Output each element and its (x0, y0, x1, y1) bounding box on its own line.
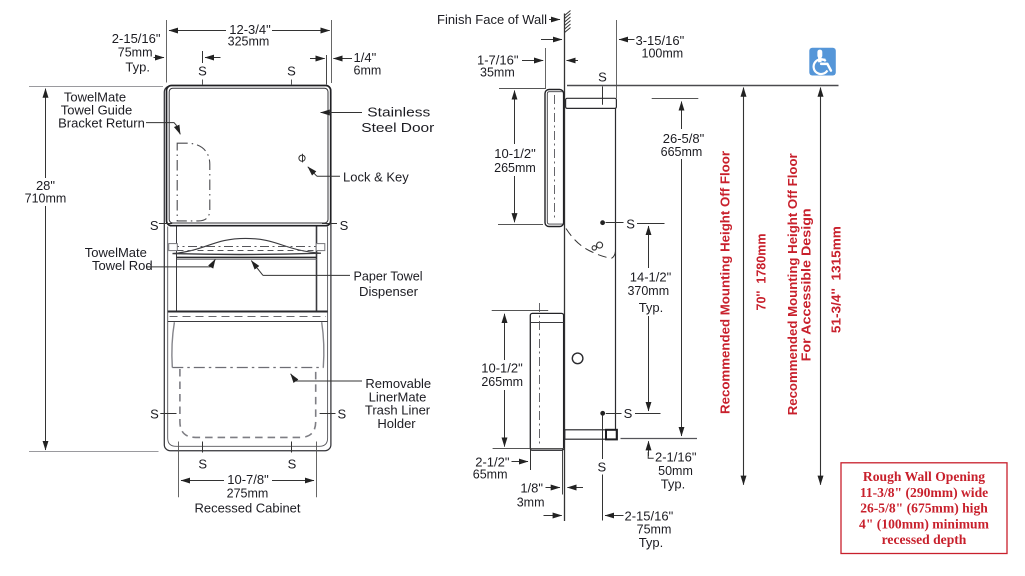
height arrow 70" (743, 88, 745, 485)
knob circle (572, 353, 583, 364)
svg-text:75mm: 75mm (118, 46, 153, 60)
svg-text:Typ.: Typ. (639, 300, 664, 315)
svg-text:4" (100mm) minimum: 4" (100mm) minimum (859, 516, 990, 532)
cabinet outer outline (164, 86, 331, 451)
svg-text:S: S (624, 406, 633, 421)
svg-text:Rough Wall Opening: Rough Wall Opening (863, 469, 985, 484)
svg-text:S: S (287, 64, 296, 79)
top reference line (567, 85, 839, 87)
svg-text:10-1/2": 10-1/2" (494, 146, 536, 161)
weld mark S arrow top (202, 51, 204, 63)
svg-text:3mm: 3mm (517, 496, 545, 510)
svg-text:1/8": 1/8" (520, 481, 543, 496)
svg-text:14-1/2": 14-1/2" (630, 270, 672, 285)
svg-text:100mm: 100mm (642, 47, 684, 61)
bottom flange end cap (606, 430, 617, 440)
svg-text:Typ.: Typ. (125, 60, 150, 75)
svg-text:2-15/16": 2-15/16" (625, 509, 674, 524)
dimension 1/8" 3mm (562, 449, 564, 495)
cabinet inner outline lower (168, 227, 328, 447)
svg-text:6mm: 6mm (354, 64, 382, 78)
height arrow 51-3/4" (820, 88, 822, 485)
dimension 3-15/16" 100mm (616, 20, 618, 98)
svg-text:S: S (598, 70, 607, 85)
svg-text:For Accessible Design: For Accessible Design (799, 208, 814, 361)
svg-text:S: S (340, 218, 349, 233)
dimension 1/4" 6mm (326, 55, 328, 85)
weld dot upper (600, 220, 605, 225)
svg-text:recessed depth: recessed depth (882, 532, 967, 547)
trash liner dashed outline (180, 369, 316, 437)
door side profile outer (545, 90, 564, 227)
svg-text:Typ.: Typ. (661, 477, 686, 492)
red note box Rough Wall Opening (841, 463, 1007, 554)
liner holder trapezoid right side (322, 322, 324, 367)
dimension 2-15/16" 75mm Typ. bottom (544, 515, 562, 517)
svg-text:265mm: 265mm (494, 161, 536, 175)
dimension 2-1/16" 50mm Typ. (648, 441, 650, 456)
lower panel centerline (539, 303, 541, 445)
svg-text:Recessed Cabinet: Recessed Cabinet (195, 500, 301, 515)
svg-text:S: S (150, 406, 159, 421)
svg-text:S: S (337, 406, 346, 421)
cabinet top flange (566, 98, 617, 108)
svg-text:S: S (198, 456, 207, 471)
svg-text:Recommended Mounting Height Of: Recommended Mounting Height Off Floor (717, 151, 732, 414)
svg-text:Steel Door: Steel Door (361, 120, 435, 135)
dimension 12-3/4" 325mm top (166, 20, 168, 83)
opening inner verticals (176, 227, 178, 312)
shelf band (168, 311, 328, 313)
dimension 10-7/8" 275mm (178, 442, 180, 498)
door swing arc (566, 229, 612, 259)
svg-text:70'' 1780mm: 70'' 1780mm (753, 234, 768, 311)
svg-text:325mm: 325mm (228, 35, 270, 49)
svg-text:10-1/2": 10-1/2" (481, 361, 523, 376)
svg-text:S: S (288, 456, 297, 471)
svg-text:Bracket Return: Bracket Return (58, 116, 145, 131)
svg-text:2-15/16": 2-15/16" (112, 31, 161, 46)
svg-text:26-5/8" (675mm) high: 26-5/8" (675mm) high (860, 501, 988, 517)
weld mark S bottom pair (202, 442, 204, 453)
dimension 10-1/2" 265mm lower (492, 310, 549, 312)
wall hatching (565, 11, 571, 33)
dimension 28" 710mm vertical (29, 87, 163, 452)
lower panel (530, 313, 563, 450)
door side centerline (554, 95, 556, 221)
dimension 14-1/2" 370mm Typ. (648, 226, 650, 268)
svg-text:S: S (198, 64, 207, 79)
svg-text:Typ.: Typ. (639, 535, 664, 550)
svg-text:370mm: 370mm (627, 284, 669, 298)
finish face of wall line (564, 14, 566, 522)
svg-text:Towel Rod: Towel Rod (92, 258, 153, 273)
svg-text:2-1/16": 2-1/16" (655, 450, 697, 465)
svg-text:51-3/4'' 1315mm: 51-3/4'' 1315mm (829, 226, 844, 333)
svg-text:35mm: 35mm (480, 66, 515, 80)
svg-text:665mm: 665mm (661, 145, 703, 159)
svg-text:3-15/16": 3-15/16" (636, 33, 685, 48)
cabinet back line (615, 108, 617, 430)
svg-text:11-3/8" (290mm) wide: 11-3/8" (290mm) wide (860, 485, 988, 501)
svg-text:S: S (626, 216, 635, 231)
svg-text:710mm: 710mm (25, 192, 67, 206)
dispenser lip (177, 257, 317, 259)
svg-text:Recommended Mounting Height Of: Recommended Mounting Height Off Floor (785, 153, 800, 415)
liner top centerline (172, 367, 323, 369)
svg-text:S: S (597, 460, 606, 475)
S vertical line bottom (602, 416, 604, 460)
towel guide bracket return (dashed) (177, 143, 210, 221)
cabinet bottom flange (565, 430, 617, 439)
bottom reference line (621, 438, 698, 440)
svg-text:Holder: Holder (377, 416, 416, 431)
liner holder trapezoid left side (172, 322, 175, 367)
svg-text:275mm: 275mm (227, 487, 269, 501)
towel rod hidden edge (178, 250, 317, 252)
svg-text:10-7/8": 10-7/8" (227, 472, 269, 487)
stainless steel door inner (169, 88, 328, 223)
towel rod centerline (170, 246, 325, 248)
stainless steel door outer (167, 86, 331, 226)
svg-text:S: S (150, 218, 159, 233)
svg-text:Finish Face of Wall: Finish Face of Wall (437, 12, 547, 27)
towel rod end cap right (316, 244, 325, 251)
paper towel drape curve (173, 238, 321, 253)
svg-text:Paper Towel: Paper Towel (354, 269, 423, 284)
dimension 10-1/2" 265mm upper (499, 88, 546, 90)
dimension 26-5/8" 665mm (652, 98, 699, 100)
svg-text:Lock & Key: Lock & Key (343, 170, 409, 185)
lock symbol (299, 155, 305, 161)
weld dot lower (600, 411, 605, 416)
key icon on swing arc (592, 246, 596, 250)
svg-text:Dispenser: Dispenser (359, 284, 419, 299)
door side profile inner (547, 92, 562, 224)
svg-text:65mm: 65mm (473, 468, 508, 482)
svg-text:Stainless: Stainless (367, 104, 431, 119)
svg-text:265mm: 265mm (481, 375, 523, 389)
accessibility symbol (809, 48, 836, 76)
towel rod end cap left (169, 244, 178, 251)
